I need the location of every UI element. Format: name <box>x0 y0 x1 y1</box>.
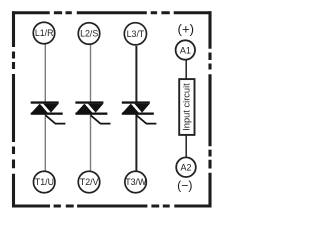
svg-text:A2: A2 <box>180 163 191 173</box>
terminal A2 <box>176 157 196 177</box>
dashed border frame: left edge <box>12 11 15 207</box>
wire triac 1 to terminal T1/U <box>44 114 46 171</box>
triac Q1 <box>31 101 63 114</box>
wire triac 3 to terminal T3/W <box>135 114 137 171</box>
terminal L1/R <box>33 22 55 44</box>
terminal L3/T <box>124 23 146 45</box>
wire triac 2 to terminal T2/V <box>90 115 92 172</box>
terminal T1/U <box>33 171 55 193</box>
dashed border frame: right edge <box>208 11 211 207</box>
svg-text:T2/V: T2/V <box>80 177 99 187</box>
svg-text:(−): (−) <box>177 178 192 192</box>
terminal T2/V <box>78 171 100 193</box>
dashed border frame: bottom edge <box>12 204 212 207</box>
wire A1 to input circuit <box>185 60 187 79</box>
triac Q2 gate <box>91 115 111 123</box>
svg-text:(+): (+) <box>178 22 194 37</box>
svg-text:L3/T: L3/T <box>127 29 145 39</box>
terminal L2/S <box>78 23 100 45</box>
wire L1 branch (terminal L1/R to triac 1 anode) <box>44 44 46 102</box>
svg-text:L2/S: L2/S <box>80 29 98 39</box>
svg-text:A1: A1 <box>180 45 191 55</box>
svg-text:L1/R: L1/R <box>35 28 54 38</box>
terminal A1 <box>176 40 195 59</box>
svg-text:T1/U: T1/U <box>35 177 54 187</box>
triac Q3 gate <box>136 115 156 123</box>
wire input circuit to A2 <box>185 135 187 158</box>
svg-text:Input circuit: Input circuit <box>182 83 192 131</box>
wire L2 branch (terminal L2/S to triac 2 anode) <box>90 45 92 102</box>
dashed border frame: top edge <box>12 11 212 207</box>
triac Q3 <box>122 101 154 114</box>
svg-text:T3/W: T3/W <box>125 177 147 187</box>
input circuit box U1 <box>179 79 194 135</box>
triac Q1 gate <box>45 115 65 123</box>
terminal T3/W <box>125 171 147 193</box>
triac Q2 <box>75 101 107 114</box>
wire L3 branch (terminal L3/T to triac 3 anode) <box>135 46 137 102</box>
